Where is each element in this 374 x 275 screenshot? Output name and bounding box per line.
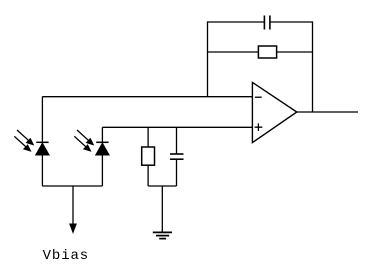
capacitor C1 (feedback) — [264, 16, 270, 30]
wire feedback mid segment left — [208, 51, 259, 53]
wire Vbias stem — [72, 186, 74, 226]
wire non-inverting input — [102, 126, 252, 128]
photodiode D1 — [36, 97, 49, 186]
wire feedback mid segment right — [277, 51, 313, 53]
wire feedback left vertical — [207, 21, 209, 96]
wire photodiode bottom bus — [42, 185, 102, 187]
wire inverting input — [42, 96, 252, 98]
svg-text:Vbias: Vbias — [43, 248, 90, 264]
light arrows into D1 — [14, 130, 33, 151]
wire feedback top segment left — [208, 21, 265, 23]
wire RC bottom bus — [148, 185, 176, 187]
wire ground stem — [161, 186, 163, 232]
light arrows into D2 — [74, 130, 93, 151]
capacitor C2 (to ground) — [170, 127, 184, 186]
photodiode D2 — [96, 127, 109, 186]
op-amp U1 — [252, 82, 296, 142]
wire feedback top segment right — [270, 21, 313, 23]
wire feedback right vertical — [312, 21, 314, 112]
resistor R1 (feedback) — [258, 46, 276, 58]
wire output — [297, 111, 358, 113]
ground symbol — [153, 232, 172, 238]
arrowhead Vbias — [70, 224, 76, 233]
resistor R2 (to ground) — [142, 127, 155, 186]
